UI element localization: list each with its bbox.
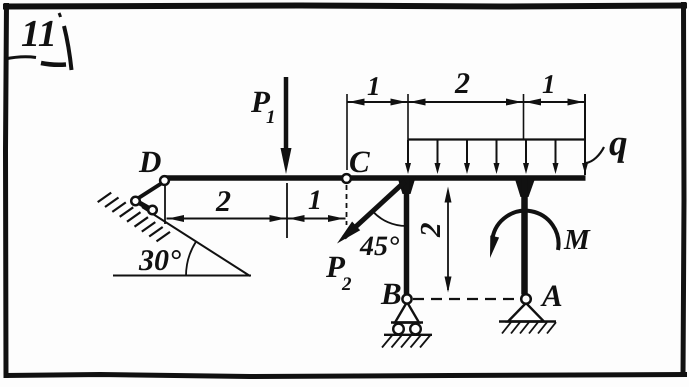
svg-text:11: 11 xyxy=(21,13,57,55)
svg-text:2: 2 xyxy=(415,223,447,239)
svg-text:M: M xyxy=(563,224,591,256)
svg-text:1: 1 xyxy=(542,69,556,99)
svg-text:1: 1 xyxy=(308,185,322,216)
svg-text:30°: 30° xyxy=(138,244,181,277)
svg-text:C: C xyxy=(349,144,370,179)
svg-text:A: A xyxy=(540,278,563,313)
svg-text:45°: 45° xyxy=(359,231,399,262)
svg-text:D: D xyxy=(138,144,161,179)
svg-text:2: 2 xyxy=(341,274,352,295)
svg-text:2: 2 xyxy=(454,67,470,100)
svg-text:1: 1 xyxy=(367,71,381,101)
svg-text:B: B xyxy=(380,276,402,311)
svg-text:q: q xyxy=(609,123,628,164)
svg-text:2: 2 xyxy=(215,185,231,218)
svg-text:1: 1 xyxy=(266,107,276,128)
